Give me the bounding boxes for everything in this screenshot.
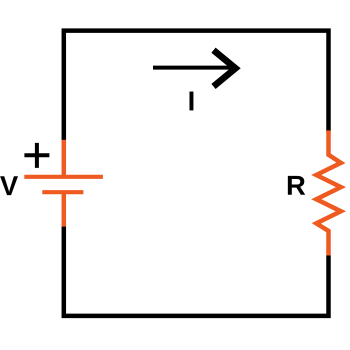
battery V bottom lead (orange wire) [62, 192, 67, 226]
current arrow head [214, 50, 236, 86]
current arrow shaft [153, 66, 234, 70]
label R [288, 176, 305, 195]
battery V negative plate [42, 190, 83, 194]
battery V positive plate [24, 175, 103, 179]
label V [0, 176, 18, 195]
resistor R (orange zigzag with leads) [316, 130, 341, 255]
battery plus sign [24, 143, 49, 168]
battery V top lead (orange wire) [62, 140, 67, 177]
wire: top rail with left and right corner drops (black) [64, 31, 329, 140]
wire: bottom rail with left and right corner risers (black) [64, 226, 329, 316]
label I [189, 92, 193, 111]
